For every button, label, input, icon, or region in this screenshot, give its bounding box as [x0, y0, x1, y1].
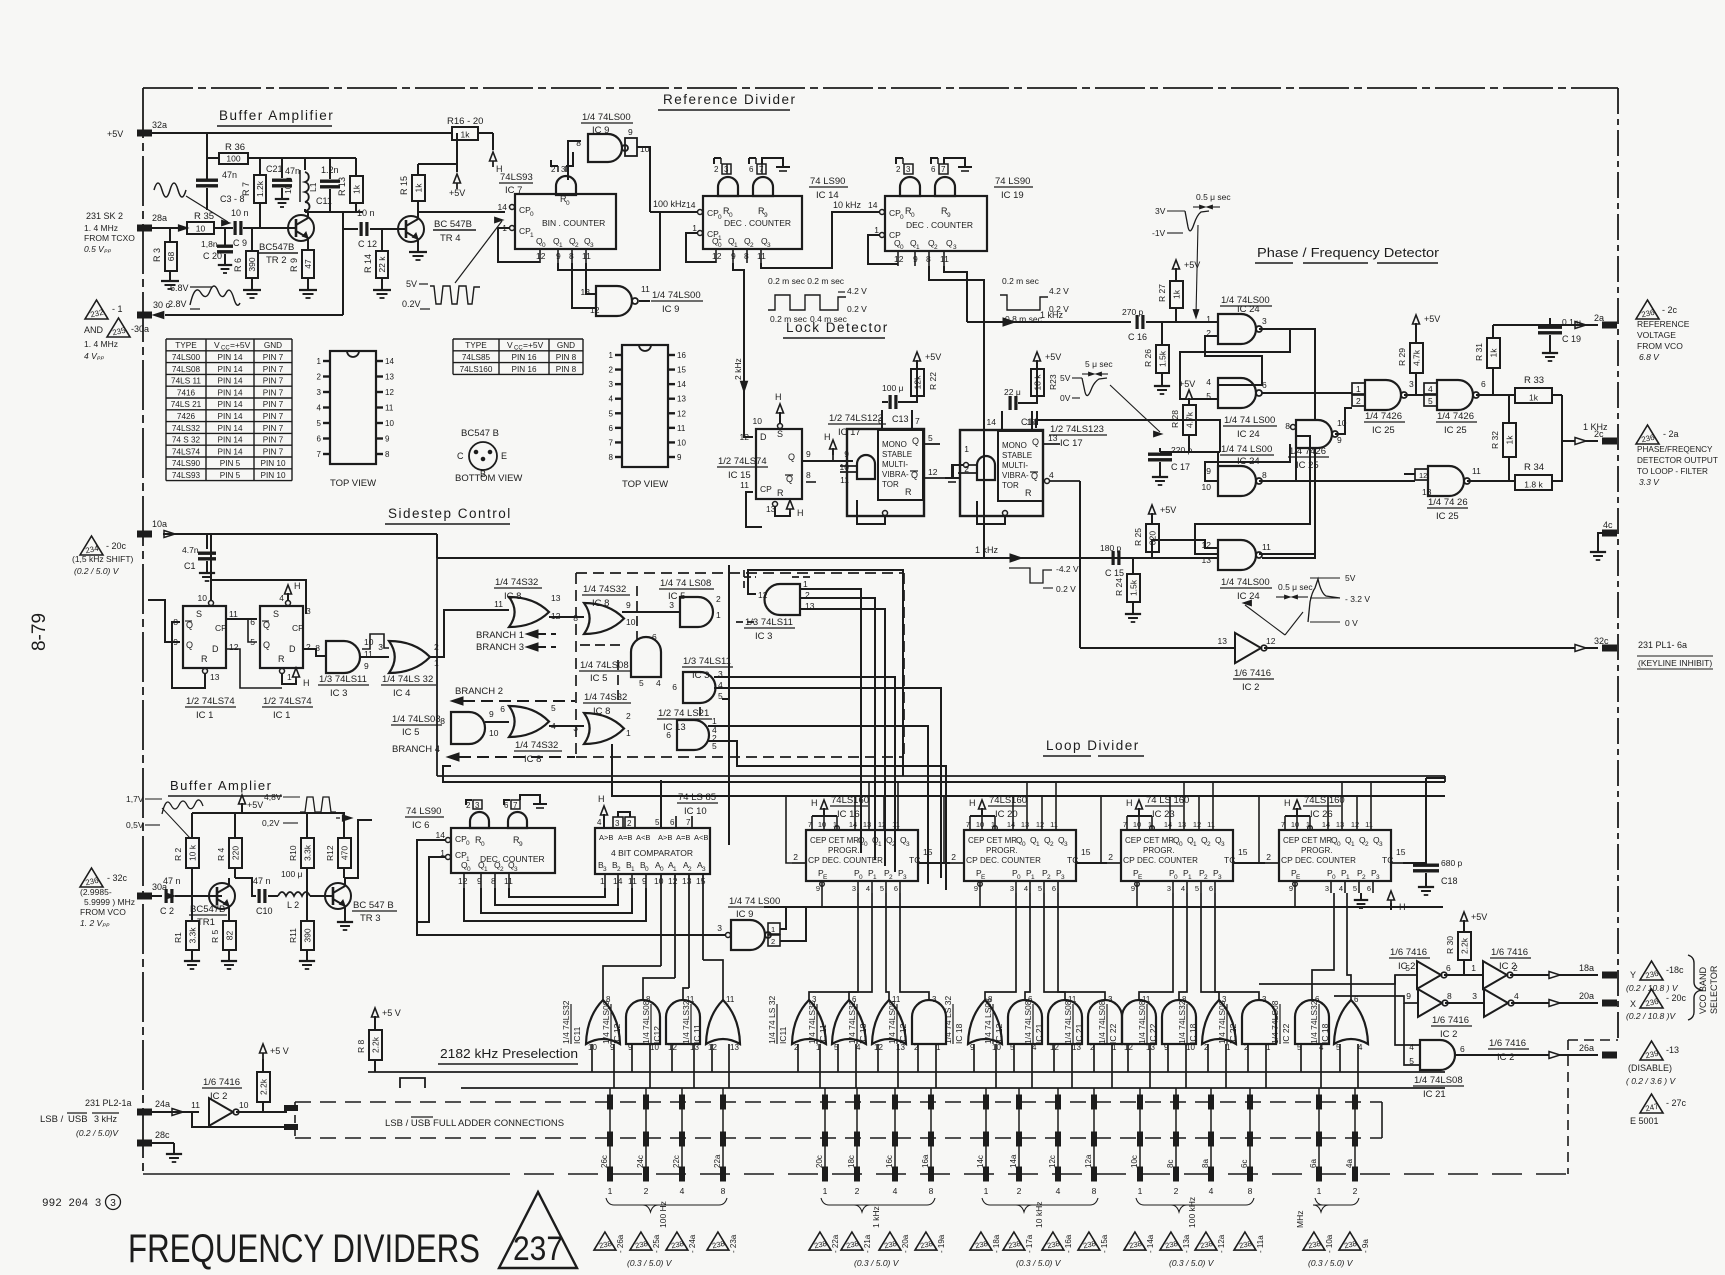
svg-text:2 kHz: 2 kHz: [733, 358, 743, 380]
svg-text:+5 V: +5 V: [270, 1046, 289, 1056]
svg-text:PIN 7: PIN 7: [263, 447, 284, 456]
svg-text:R 24: R 24: [1114, 578, 1124, 596]
svg-text:1/4 74LS00: 1/4 74LS00: [1221, 577, 1270, 588]
svg-text:1: 1: [626, 728, 631, 738]
svg-text:R 36: R 36: [225, 142, 245, 153]
svg-text:H: H: [598, 794, 605, 804]
svg-text:1/4 74LS08: 1/4 74LS08: [1414, 1075, 1463, 1086]
svg-text:4.2 V: 4.2 V: [1049, 286, 1069, 296]
svg-text:992 204 3: 992 204 3: [42, 1198, 101, 1210]
svg-text:9: 9: [1206, 466, 1211, 476]
and gates on IC6 R pins: [470, 812, 489, 828]
svg-text:STABLE: STABLE: [1002, 451, 1032, 460]
svg-text:BRANCH 4: BRANCH 4: [392, 744, 440, 755]
svg-text:(DISABLE): (DISABLE): [1628, 1063, 1672, 1073]
svg-text:PIN 14: PIN 14: [217, 436, 242, 445]
svg-text:7426: 7426: [177, 412, 196, 421]
annotation arrow to 1kHz node: [1196, 225, 1198, 315]
svg-text:IC 9: IC 9: [662, 304, 679, 315]
svg-text:13: 13: [1048, 433, 1058, 443]
svg-text:CEP CET MR: CEP CET MR: [810, 836, 859, 845]
svg-text:IC 15: IC 15: [728, 470, 751, 481]
svg-text:H: H: [1399, 902, 1406, 912]
wire keyline inhibit 32c: [1080, 647, 1235, 649]
svg-text:236: 236: [85, 876, 100, 888]
nand 1/4 7426 IC25 gate A pins1-2-3: [1365, 380, 1401, 410]
svg-text:5: 5: [551, 703, 556, 713]
svg-text:2.8V: 2.8V: [168, 299, 187, 309]
svg-text:4: 4: [1206, 377, 1211, 387]
svg-text:22a: 22a: [713, 1154, 722, 1168]
svg-text:BC547 B: BC547 B: [461, 428, 499, 439]
wire nand IC9 right pins: [780, 907, 786, 929]
svg-text:238: 238: [1164, 1239, 1178, 1250]
svg-text:IC 25: IC 25: [1372, 425, 1395, 436]
dashed box LSB/USB full adder connections: [295, 1101, 1382, 1103]
svg-text:4: 4: [1056, 1186, 1061, 1196]
svg-text:180 p: 180 p: [1100, 543, 1122, 553]
svg-text:IC 11: IC 11: [692, 1024, 702, 1044]
svg-text:0: 0: [1022, 841, 1026, 848]
flipflop 1/2 74LS74 IC15: [756, 429, 802, 499]
svg-text:12k: 12k: [913, 375, 923, 389]
connector bars rows: [607, 1095, 613, 1110]
svg-text:(0.3 / 5.0) V: (0.3 / 5.0) V: [627, 1258, 673, 1268]
svg-text:74 LS 85: 74 LS 85: [678, 792, 716, 803]
svg-text:3: 3: [317, 388, 322, 397]
svg-text:USB: USB: [68, 1114, 88, 1125]
svg-text:82: 82: [225, 931, 235, 941]
svg-text:D: D: [760, 432, 767, 442]
svg-text:16: 16: [677, 351, 686, 360]
svg-text:H: H: [969, 798, 976, 808]
svg-text:12: 12: [894, 254, 904, 264]
svg-text:3: 3: [852, 884, 856, 893]
svg-text:H: H: [811, 798, 818, 808]
resistor R10 3.3k: [301, 838, 314, 868]
svg-text:47: 47: [303, 259, 313, 269]
svg-text:3: 3: [932, 995, 937, 1004]
svg-text:0: 0: [859, 874, 863, 881]
svg-text:Loop Divider: Loop Divider: [1046, 738, 1140, 753]
svg-text:- 27c: - 27c: [1666, 1098, 1687, 1108]
svg-text:0: 0: [1017, 874, 1021, 881]
wire H pin after R16-20: [492, 133, 494, 150]
svg-text:7: 7: [808, 820, 812, 829]
svg-text:(0.2 / 5.0) V: (0.2 / 5.0) V: [74, 566, 120, 576]
wire lock to nand IC24-4: [1133, 557, 1218, 559]
svg-text:8: 8: [806, 470, 811, 480]
wire preselection step: [400, 1078, 425, 1088]
svg-text:- 25a: - 25a: [652, 1234, 661, 1253]
svg-text:1. 4 MHz: 1. 4 MHz: [84, 339, 118, 349]
svg-text:R 4: R 4: [216, 848, 226, 862]
svg-text:(0.2 / 5.0)V: (0.2 / 5.0)V: [76, 1128, 119, 1138]
svg-text:1: 1: [673, 866, 677, 873]
svg-text:- 3.2 V: - 3.2 V: [1345, 594, 1370, 604]
svg-text:238: 238: [813, 1239, 827, 1250]
svg-text:32a: 32a: [152, 120, 167, 130]
braces under groups: [606, 1198, 727, 1212]
svg-text:74 LS90: 74 LS90: [995, 176, 1030, 187]
svg-text:11: 11: [1050, 820, 1058, 829]
svg-text:13: 13: [551, 593, 561, 603]
svg-text:10a: 10a: [152, 519, 167, 529]
svg-text:0: 0: [1332, 874, 1336, 881]
svg-text:47n: 47n: [222, 170, 237, 180]
svg-text:12: 12: [878, 820, 886, 829]
wire 1kHz to phase detector: [967, 321, 1131, 323]
svg-text:8: 8: [721, 1186, 726, 1196]
dashed stubs inside box: [580, 644, 625, 646]
svg-text:238: 238: [845, 1239, 859, 1250]
svg-text:4: 4: [1514, 991, 1519, 1001]
svg-text:14: 14: [677, 380, 686, 389]
svg-text:IC 5: IC 5: [402, 727, 419, 738]
svg-text:12c: 12c: [1048, 1155, 1057, 1168]
svg-text:S: S: [196, 609, 202, 619]
svg-text:1: 1: [1036, 841, 1040, 848]
svg-text:5: 5: [1428, 396, 1433, 406]
svg-text:4: 4: [1428, 384, 1433, 394]
svg-text:TOP VIEW: TOP VIEW: [330, 478, 376, 489]
svg-text:2: 2: [1365, 841, 1369, 848]
svg-text:A=B: A=B: [618, 833, 632, 842]
nand 1/4 7426 IC25 gate D pins 12-13-11: [1428, 466, 1464, 496]
svg-text:DEC. COUNTER: DEC. COUNTER: [1137, 856, 1198, 865]
svg-text:- 18a: - 18a: [992, 1234, 1001, 1253]
svg-text:11: 11: [892, 820, 900, 829]
svg-text:1/4 7426: 1/4 7426: [1437, 411, 1474, 422]
sine symbol annotation: [154, 183, 186, 197]
svg-text:1,8n: 1,8n: [201, 239, 218, 249]
svg-text:3: 3: [603, 866, 607, 873]
svg-text:0.5 μ sec: 0.5 μ sec: [1196, 192, 1231, 202]
svg-text:1/4 74LS08: 1/4 74LS08: [601, 1000, 611, 1044]
svg-text:FROM TCXO: FROM TCXO: [84, 233, 135, 243]
svg-text:- 2a: - 2a: [1663, 429, 1679, 439]
svg-text:1: 1: [964, 444, 969, 454]
title triangle 237: [499, 1192, 577, 1268]
svg-text:2: 2: [1513, 963, 1518, 973]
svg-text:1/4 7426: 1/4 7426: [1289, 446, 1326, 457]
svg-text:IC 12: IC 12: [612, 1023, 622, 1044]
svg-text:7: 7: [941, 165, 946, 174]
svg-text:1: 1: [823, 1186, 828, 1196]
svg-text:5: 5: [639, 678, 644, 688]
svg-text:12: 12: [1419, 471, 1427, 480]
wires inverter chain x: [1445, 1002, 1484, 1004]
svg-text:15: 15: [1396, 847, 1406, 857]
wire 1kHz lock bus: [436, 534, 438, 558]
svg-text:Phase / Frequency Detector: Phase / Frequency Detector: [1257, 245, 1440, 260]
svg-text:1/6 7416: 1/6 7416: [203, 1077, 240, 1088]
wire IC26 TC to C18: [1403, 778, 1426, 863]
svg-text:238: 238: [1307, 1239, 1321, 1250]
svg-text:10: 10: [654, 876, 664, 886]
ground and H pin IC26 bottom: [1360, 893, 1362, 899]
svg-text:8: 8: [929, 1186, 934, 1196]
wires IC3 right outputs across: [714, 677, 895, 872]
svg-text:0.5 μ sec: 0.5 μ sec: [1278, 582, 1313, 592]
svg-text:1: 1: [692, 223, 697, 233]
svg-text:8c: 8c: [1166, 1160, 1175, 1168]
svg-text:7: 7: [686, 818, 691, 827]
wire inverter output to adder box: [236, 1111, 287, 1113]
svg-text:IC 22: IC 22: [1148, 1023, 1158, 1044]
svg-text:238: 238: [1082, 1239, 1096, 1250]
resistor R22 12k: [911, 369, 924, 396]
svg-text:H: H: [294, 581, 301, 591]
svg-text:FROM VCO: FROM VCO: [1637, 341, 1683, 351]
wire IC14 CP1 loop: [686, 233, 716, 262]
svg-text:2: 2: [793, 852, 798, 862]
svg-text:IC 21: IC 21: [1034, 1023, 1044, 1044]
svg-text:E 5001: E 5001: [1630, 1116, 1659, 1126]
svg-text:6: 6: [672, 682, 677, 692]
svg-text:13: 13: [682, 876, 692, 886]
svg-text:1/4 74LS08: 1/4 74LS08: [1137, 1000, 1147, 1044]
svg-text:E: E: [981, 874, 986, 881]
svg-text:5V: 5V: [1060, 373, 1071, 383]
svg-text:2: 2: [644, 1186, 649, 1196]
nand IC24 gate2: [1218, 378, 1256, 408]
svg-text:H: H: [824, 432, 831, 442]
svg-text:2: 2: [627, 819, 632, 828]
svg-text:IC 22: IC 22: [1108, 1023, 1118, 1044]
svg-text:12a: 12a: [1084, 1154, 1093, 1168]
resistor R14 22k: [381, 229, 383, 251]
svg-text:PIN 5: PIN 5: [220, 471, 241, 480]
resistor R15 1k: [412, 175, 425, 201]
svg-text:2: 2: [716, 594, 721, 604]
svg-text:VCO BAND: VCO BAND: [1698, 966, 1708, 1014]
svg-text:C18: C18: [1441, 876, 1458, 886]
capacitor C15 180p: [1112, 551, 1115, 565]
svg-text:13: 13: [210, 672, 220, 682]
svg-text:Lock Detector: Lock Detector: [786, 320, 889, 335]
svg-text:12: 12: [758, 590, 768, 600]
svg-text:=+5V: =+5V: [230, 340, 251, 350]
svg-text:H: H: [1284, 798, 1291, 808]
svg-text:1/4 74LS08: 1/4 74LS08: [887, 1000, 897, 1044]
svg-text:74LS00: 74LS00: [172, 353, 201, 362]
svg-text:237: 237: [513, 1230, 563, 1268]
svg-text:10: 10: [198, 593, 208, 603]
wires IC13 outputs: [708, 726, 928, 884]
svg-text:1: 1: [734, 242, 738, 249]
svg-text:236: 236: [1641, 308, 1656, 320]
svg-text:C 16: C 16: [1128, 332, 1147, 342]
svg-text:- 17a: - 17a: [1025, 1234, 1034, 1253]
svg-text:10 kHz: 10 kHz: [1034, 1202, 1044, 1228]
svg-text:(0.2 / 10.8 )V: (0.2 / 10.8 )V: [1626, 1011, 1676, 1021]
svg-text:10: 10: [1291, 820, 1299, 829]
resistor R36 100: [206, 133, 208, 179]
svg-text:1/4 74LS08: 1/4 74LS08: [580, 660, 629, 671]
triangle refs bottom row: [594, 1232, 616, 1250]
svg-text:IC 5: IC 5: [590, 673, 607, 684]
resistor R31 1k: [1487, 338, 1500, 368]
svg-text:74 LS90: 74 LS90: [406, 806, 441, 817]
wire 10a to FF: [206, 534, 208, 549]
svg-text:235: 235: [112, 326, 127, 338]
svg-text:12: 12: [590, 305, 600, 315]
svg-text:- 14a: - 14a: [1146, 1234, 1155, 1253]
svg-text:1/4 74LS08: 1/4 74LS08: [1270, 1000, 1280, 1044]
svg-text:Buffer Amplier: Buffer Amplier: [170, 778, 272, 793]
svg-text:11: 11: [1262, 542, 1271, 552]
wire PE bus connections: [821, 893, 823, 907]
svg-text:1: 1: [1471, 963, 1476, 973]
long vertical bus x729: [728, 565, 730, 845]
svg-text:PROGR.: PROGR.: [1301, 846, 1333, 855]
svg-text:9: 9: [1337, 435, 1342, 445]
svg-text:S: S: [273, 609, 279, 619]
svg-text:1/4 74LS08: 1/4 74LS08: [641, 1000, 651, 1044]
svg-text:BRANCH 3: BRANCH 3: [476, 642, 524, 653]
svg-text:470: 470: [340, 846, 350, 860]
svg-text:6: 6: [317, 435, 322, 444]
svg-text:10: 10: [626, 617, 636, 627]
svg-text:3: 3: [767, 242, 771, 249]
svg-text:0.2 V: 0.2 V: [847, 304, 867, 314]
svg-text:IC 18: IC 18: [1320, 1023, 1330, 1044]
triangle ref 236 -32c input: [80, 868, 103, 887]
svg-text:+5V: +5V: [1179, 379, 1195, 389]
wire mono2 Qbar down to keyline: [1079, 481, 1081, 648]
wire IC19 CP1 loop: [868, 235, 898, 264]
svg-text:2: 2: [1207, 841, 1211, 848]
svg-text:14: 14: [1007, 820, 1015, 829]
svg-text:13: 13: [730, 1043, 739, 1052]
svg-text:- 20c: - 20c: [1666, 993, 1687, 1003]
svg-text:6: 6: [670, 818, 675, 827]
svg-text:10: 10: [640, 144, 650, 154]
or 1/4 74LS32 IC4 gate: [389, 641, 430, 673]
svg-text:0: 0: [645, 866, 649, 873]
svg-text:231 SK 2: 231 SK 2: [86, 211, 123, 221]
svg-text:4: 4: [1339, 884, 1343, 893]
svg-text:0.1 μ: 0.1 μ: [1562, 317, 1581, 327]
svg-text:12: 12: [458, 876, 468, 886]
svg-text:4.2 V: 4.2 V: [847, 286, 867, 296]
svg-text:LSB / USB FULL ADDER CONNEC: LSB / USB FULL ADDER CONNECTIONS: [385, 1118, 564, 1129]
svg-text:E: E: [501, 451, 507, 461]
svg-text:1/4 74 LS08: 1/4 74 LS08: [983, 998, 993, 1044]
svg-text:26c: 26c: [600, 1155, 609, 1168]
svg-text:3: 3: [1262, 316, 1267, 326]
gnd IC6 top: [520, 795, 540, 803]
svg-text:PIN 7: PIN 7: [263, 353, 284, 362]
svg-text:5: 5: [1405, 963, 1410, 973]
svg-text:PIN 7: PIN 7: [263, 436, 284, 445]
svg-text:R 28: R 28: [1170, 410, 1180, 428]
svg-text:7: 7: [609, 438, 614, 447]
svg-text:+5V: +5V: [1471, 912, 1487, 922]
svg-text:- 16a: - 16a: [1064, 1234, 1073, 1253]
brace VCO band selector: [1688, 955, 1701, 1020]
svg-text:8: 8: [1262, 470, 1267, 480]
svg-text:3: 3: [1064, 841, 1068, 848]
svg-text:8-79: 8-79: [29, 613, 50, 651]
svg-text:CP: CP: [808, 855, 820, 865]
svg-text:4,8V: 4,8V: [264, 792, 282, 802]
svg-text:FREQUENCY DIVIDERS: FREQUENCY DIVIDERS: [128, 1227, 480, 1271]
svg-text:12: 12: [677, 409, 686, 418]
svg-text:PIN 8: PIN 8: [556, 365, 577, 374]
svg-text:0.2V: 0.2V: [402, 299, 421, 309]
wires FF cross coupling: [172, 622, 205, 688]
svg-text:PIN 7: PIN 7: [263, 388, 284, 397]
svg-text:Q: Q: [1032, 437, 1039, 447]
svg-text:MULTI-: MULTI-: [882, 460, 908, 469]
svg-text:=+5V: =+5V: [523, 340, 544, 350]
wire +5V drop pin: [456, 133, 458, 172]
resistor R29 4.7k: [1413, 315, 1420, 324]
svg-text:10: 10: [239, 1100, 249, 1110]
svg-text:0: 0: [900, 244, 904, 251]
svg-text:1: 1: [559, 242, 563, 249]
svg-text:IC 2: IC 2: [1497, 1052, 1514, 1063]
svg-text:13: 13: [1336, 820, 1344, 829]
svg-text:74LS 160: 74LS 160: [1304, 795, 1345, 806]
svg-text:1/4 74 26: 1/4 74 26: [1428, 497, 1468, 508]
svg-text:- 26a: - 26a: [616, 1234, 625, 1253]
svg-text:6: 6: [749, 165, 754, 174]
svg-text:FROM VCO: FROM VCO: [80, 907, 126, 917]
svg-text:8: 8: [385, 450, 390, 459]
svg-text:2: 2: [1353, 1186, 1358, 1196]
svg-text:IC 11: IC 11: [818, 1024, 828, 1044]
svg-text:6: 6: [1446, 963, 1451, 973]
svg-text:PIN 7: PIN 7: [263, 377, 284, 386]
svg-text:1: 1: [716, 610, 721, 620]
svg-text:238: 238: [919, 1239, 933, 1250]
triangle ref 236 -2c: [1636, 300, 1659, 319]
svg-text:PIN 14: PIN 14: [217, 388, 242, 397]
DIP package 14 pin TOP VIEW: [330, 351, 376, 464]
svg-text:- 1: - 1: [112, 304, 123, 314]
svg-text:GND: GND: [264, 341, 282, 350]
svg-text:1 kHz: 1 kHz: [871, 1206, 881, 1228]
svg-text:6: 6: [1481, 379, 1486, 389]
svg-text:(2.9985-: (2.9985-: [80, 887, 112, 897]
multivibrator R loop 2: [977, 501, 1005, 524]
svg-text:IC 1: IC 1: [273, 710, 290, 721]
svg-text:2: 2: [500, 866, 504, 873]
svg-text:2.2k: 2.2k: [1460, 937, 1470, 954]
svg-text:-13: -13: [1666, 1045, 1679, 1055]
svg-text:12: 12: [385, 388, 394, 397]
svg-text:6.8V: 6.8V: [170, 283, 189, 293]
resistor R8 2.2k: [372, 1008, 379, 1017]
svg-text:IC 25: IC 25: [1436, 511, 1459, 522]
svg-text:5: 5: [1353, 884, 1357, 893]
svg-text:13: 13: [1218, 636, 1228, 646]
svg-text:13: 13: [1021, 820, 1029, 829]
nand 1/4 7426 IC25 gate C pins 8-9-10: [1296, 420, 1332, 448]
wire IC4 out to OR IC8: [430, 610, 509, 657]
svg-text:R 25: R 25: [1133, 528, 1143, 546]
svg-text:CP: CP: [215, 623, 227, 633]
svg-text:0: 0: [1174, 874, 1178, 881]
triangle ref 236 -2a: [1636, 425, 1659, 444]
svg-text:1: 1: [984, 1186, 989, 1196]
svg-text:R 33: R 33: [1524, 375, 1544, 386]
svg-text:1/2 74LS74: 1/2 74LS74: [718, 456, 767, 467]
svg-text:1k: 1k: [1172, 289, 1182, 299]
